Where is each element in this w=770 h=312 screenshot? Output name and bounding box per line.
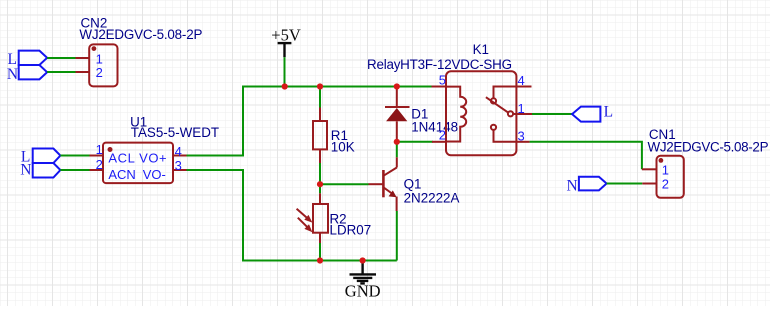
svg-text:ACL VO+: ACL VO+ (108, 150, 166, 165)
wire D1 to relay pin 2 (397, 141, 433, 143)
svg-text:10K: 10K (331, 139, 355, 154)
U1 body (103, 143, 173, 184)
net flag L at CN2 (8, 51, 48, 68)
svg-text:+5V: +5V (271, 26, 301, 45)
svg-text:2: 2 (439, 128, 446, 143)
svg-text:1: 1 (662, 163, 669, 178)
CN1 pin 1 (642, 163, 669, 178)
K1 switch common arm (486, 87, 516, 113)
svg-text:WJ2EDGVC-5.08-2P: WJ2EDGVC-5.08-2P (79, 27, 202, 42)
U1 pin 2 ACN (90, 157, 104, 172)
svg-text:N: N (20, 161, 31, 178)
svg-text:2N2222A: 2N2222A (404, 191, 460, 206)
connector CN2 body (89, 44, 117, 86)
net flag N at CN2 (7, 65, 47, 83)
diode D1 (385, 87, 410, 142)
svg-text:2: 2 (96, 157, 103, 172)
svg-text:1: 1 (518, 101, 525, 116)
K1 coil (446, 87, 466, 142)
junction +5V rail at power stem (282, 83, 288, 89)
junction GND symbol at rail (360, 257, 366, 263)
junction R2 at GND rail (317, 257, 323, 263)
K1 pin 4 (516, 73, 532, 88)
junction R1 / R2 / Q1 base (317, 181, 323, 187)
wire R1 to base node (319, 163, 321, 184)
CN1 pin 2 (642, 177, 669, 192)
K1 pin 1 (516, 101, 532, 116)
junction +5V rail at D1 (394, 83, 400, 89)
K1 lower contact (491, 125, 516, 142)
svg-text:2: 2 (96, 65, 103, 80)
wire D1 to Q1 collector (396, 142, 398, 158)
ground symbol GND (345, 262, 381, 301)
svg-text:K1: K1 (473, 42, 489, 57)
K1 pin 3 (516, 128, 530, 143)
svg-text:N: N (7, 66, 18, 83)
wire +5V rail from U1 pin 4 to relay pin 5 (187, 87, 433, 156)
svg-text:Q1: Q1 (404, 177, 422, 192)
relay K1 body (446, 71, 516, 155)
svg-text:N: N (567, 178, 578, 195)
net flag N at U1 (20, 161, 60, 178)
U1 pin 3 VO- (173, 158, 187, 173)
junction D1 anode / relay pin 2 / Q1 collector (394, 139, 400, 145)
wire L to U1 pin 1 (60, 155, 89, 157)
wire L to CN2 pin 1 (47, 57, 75, 59)
svg-text:2: 2 (662, 177, 669, 192)
svg-text:TAS5-5-WEDT: TAS5-5-WEDT (131, 125, 219, 140)
svg-text:LDR07: LDR07 (330, 222, 372, 237)
svg-text:GND: GND (345, 282, 381, 301)
svg-text:WJ2EDGVC-5.08-2P: WJ2EDGVC-5.08-2P (648, 140, 769, 155)
net flag L at K1 (572, 104, 613, 122)
svg-text:5: 5 (439, 73, 446, 88)
svg-text:4: 4 (518, 73, 525, 88)
U1 pin 1 ACL (90, 142, 104, 157)
svg-text:ACN VO-: ACN VO- (108, 167, 165, 182)
svg-text:L: L (604, 104, 613, 121)
K1 normally-open contact (508, 111, 516, 116)
svg-text:4: 4 (175, 144, 182, 159)
net flag N at CN1 (567, 177, 607, 195)
wire K1 pin 3 to CN1 pin 1 (530, 142, 642, 170)
wire base node to R2 (319, 184, 321, 193)
wire N flag to CN1 pin 2 (607, 183, 643, 185)
wire N to U1 pin 2 (60, 169, 89, 171)
K1 pin 5 (432, 73, 447, 88)
resistor R1 (313, 108, 327, 164)
svg-text:3: 3 (518, 128, 525, 143)
transistor Q1 (369, 157, 397, 211)
U1 pin 4 VO+ (173, 144, 187, 159)
svg-text:3: 3 (175, 158, 182, 173)
K1 pin 2 (432, 128, 446, 143)
wire +5V rail to R1 (319, 87, 321, 108)
wire Q1 emitter to GND rail (396, 211, 398, 261)
svg-text:RelayHT3F-12VDC-SHG: RelayHT3F-12VDC-SHG (367, 57, 512, 72)
power symbol +5V (271, 26, 301, 58)
photoresistor R2 (297, 193, 328, 243)
svg-text:1N4148: 1N4148 (411, 119, 458, 134)
svg-text:1: 1 (96, 142, 103, 157)
wire base node to Q1 base (320, 183, 369, 185)
wire K1 pin 1 to L flag (532, 113, 572, 115)
junction +5V rail at R1 (317, 83, 323, 89)
CN2 pin 2 (76, 65, 103, 80)
CN2 pin 1 (76, 52, 103, 67)
connector CN1 body (657, 156, 684, 198)
wire R2 to GND rail (319, 243, 321, 261)
wire N to CN2 pin 2 (47, 71, 75, 73)
wire GND rail from U1 pin 3 (187, 170, 397, 261)
wire +5V stem (284, 57, 286, 86)
net flag L at U1 (21, 149, 61, 166)
